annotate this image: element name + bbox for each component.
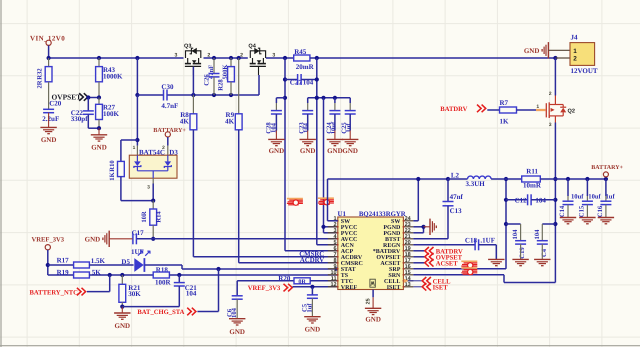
svg-text:13: 13 [405, 282, 411, 288]
svg-text:Q2: Q2 [568, 108, 575, 114]
wire TS net / R19 row [48, 268, 74, 276]
svg-text:GND: GND [91, 144, 107, 152]
svg-text:104: 104 [534, 229, 541, 240]
svg-text:47nf: 47nf [450, 193, 464, 201]
svg-text:2.2uF: 2.2uF [42, 115, 59, 123]
resistor R18 [153, 266, 338, 286]
wire SW pin1 riser and top run [328, 177, 451, 221]
svg-text:Q4: Q4 [248, 43, 256, 49]
ground GND under C4 [534, 259, 550, 265]
svg-text:ISET: ISET [387, 285, 401, 291]
svg-text:GND: GND [115, 322, 131, 330]
wire STAT net [145, 265, 338, 271]
svg-text:1uf: 1uf [346, 123, 353, 133]
transistor Q3 [174, 43, 210, 75]
U1 pin 1 SW [328, 216, 350, 225]
net label BATDRV to R7 [440, 105, 499, 113]
resistor R9 [225, 58, 242, 263]
capacitor C21 [122, 275, 197, 307]
svg-text:D3: D3 [169, 148, 178, 156]
svg-text:10mR: 10mR [523, 182, 542, 190]
connector J4 [548, 34, 598, 75]
U1 pin 25 and ground [365, 290, 381, 324]
orange arrow at pin14 [404, 279, 408, 283]
svg-text:C12: C12 [515, 196, 528, 204]
wire main bus to J4 [310, 56, 558, 60]
svg-text:R20: R20 [278, 274, 291, 282]
svg-text:R32: R32 [37, 68, 44, 80]
capacitor C24 [326, 111, 341, 135]
resistor R28 [218, 58, 235, 95]
svg-text:R14: R14 [155, 211, 162, 223]
capacitor C18 REGN [413, 237, 496, 260]
svg-text:D5: D5 [121, 258, 130, 266]
svg-text:C14: C14 [559, 205, 566, 217]
svg-text:3: 3 [549, 122, 552, 128]
capacitor C25 [341, 111, 356, 134]
op-amp U1 BQ24133RGYR charger IC body [338, 210, 406, 290]
resistor R43 [96, 58, 123, 98]
svg-text:104: 104 [186, 290, 197, 298]
resistor R11 [522, 168, 556, 190]
U1 pin 9 STAT [328, 264, 356, 273]
resistor R27 [96, 98, 120, 129]
net label BATDRV pin19 [413, 247, 463, 256]
svg-text:10uf: 10uf [571, 193, 584, 200]
ground GND under C18 [488, 259, 504, 265]
wire CMSRC to pin7 [193, 251, 337, 258]
U1 pin 11 TTC [328, 276, 353, 285]
svg-text:0R: 0R [298, 278, 306, 285]
U1 pin 14 CELL [384, 276, 413, 285]
wire battery rail [555, 177, 608, 181]
U1 pin 12 VREF [328, 282, 358, 291]
svg-text:GND: GND [269, 147, 285, 155]
transistor Q4 [240, 43, 275, 75]
svg-text:ACDRV: ACDRV [300, 257, 324, 264]
ground GND under R27 [91, 128, 107, 151]
capacitor C4 [534, 224, 556, 259]
wire AVCC to pin4 [153, 238, 338, 240]
net label ACSET pin17 [413, 259, 458, 268]
power port VIN_12V0 [30, 35, 65, 58]
ground GND under C23 [300, 114, 316, 155]
svg-text:100K: 100K [103, 110, 120, 118]
svg-text:10uf: 10uf [331, 121, 338, 134]
U1 pin 17 ACSET [380, 258, 413, 267]
svg-text:1: 1 [133, 145, 136, 151]
svg-text:2: 2 [549, 91, 552, 97]
net label BAT_CHG_STA [137, 269, 218, 316]
svg-text:1K: 1K [500, 117, 510, 125]
svg-text:BQ24133RGYR: BQ24133RGYR [359, 211, 406, 218]
svg-text:2: 2 [240, 52, 243, 58]
U1 pin 2 PVCC [328, 222, 358, 231]
svg-text:GND: GND [305, 325, 321, 333]
U1 pin 7 ACDRV [328, 252, 363, 261]
ground GND left of C17 [85, 231, 133, 247]
diode D3 BAT54C [129, 148, 178, 178]
svg-text:500K: 500K [222, 64, 229, 80]
ground PGND bars [424, 219, 437, 235]
svg-text:4.7nF: 4.7nF [161, 102, 178, 110]
svg-text:GND: GND [300, 147, 316, 155]
U1 pin 10 TS [328, 270, 349, 279]
ground GND under C25 [342, 114, 358, 155]
svg-text:L2: L2 [451, 171, 460, 179]
no-ERC marker on ACN riser [318, 198, 334, 205]
svg-text:VREF_3V3: VREF_3V3 [248, 285, 281, 292]
wire Q4 to R45 [266, 56, 294, 60]
net label OVPSET left [52, 92, 88, 101]
svg-text:4K: 4K [180, 118, 190, 126]
wire ACN riser [315, 58, 338, 245]
svg-text:104: 104 [303, 122, 310, 133]
U1 pin 23 PGND [383, 222, 413, 231]
transistor Q2 [546, 91, 575, 128]
svg-text:1: 1 [573, 48, 577, 55]
U1 pin 5 ACN [328, 240, 355, 249]
svg-text:BATDRV: BATDRV [440, 106, 467, 113]
power port VREF_3V3 left [32, 237, 65, 275]
capacitor C19 [506, 224, 526, 259]
svg-text:BAT_CHG_STA: BAT_CHG_STA [137, 309, 184, 316]
svg-text:ACSET: ACSET [436, 261, 459, 268]
wire ACDRV to pin8 [239, 257, 338, 264]
wire Q2 source to battery rail [553, 123, 557, 182]
svg-text:GND: GND [524, 47, 540, 55]
power port BATTARY+ mid [153, 127, 186, 155]
wire SW pin24 riser [413, 179, 418, 221]
capacitor C30 [137, 83, 193, 110]
no-ERC marker on SRP wire [461, 261, 477, 268]
ground GND under C16 [598, 218, 614, 224]
svg-text:R17: R17 [57, 257, 70, 265]
ground GND under C6 [229, 319, 245, 336]
capacitor C16 [597, 179, 615, 218]
U1 pin 18 OVPSET [376, 252, 413, 261]
svg-text:12VOUT: 12VOUT [571, 67, 598, 75]
ground GND under C19 [512, 259, 528, 265]
svg-text:VREF_3V3: VREF_3V3 [32, 237, 65, 244]
svg-text:OVPSET: OVPSET [52, 92, 82, 101]
wire VIN riser to gate bus [135, 58, 139, 97]
svg-text:1K: 1K [109, 171, 116, 180]
wire Q3-Q4 middle node [204, 56, 248, 60]
wire PVCC-ACN cap stub [308, 96, 351, 111]
svg-text:VREF: VREF [341, 285, 358, 291]
ground GND at J4 pin1 [524, 42, 549, 58]
U1 pin 21 BTST [385, 234, 413, 243]
svg-text:C13: C13 [450, 207, 463, 215]
svg-text:R11: R11 [526, 168, 538, 176]
svg-text:1.5K: 1.5K [91, 257, 106, 265]
svg-text:2: 2 [573, 56, 577, 63]
wire OVPSET node [86, 95, 101, 99]
resistor R19 [74, 268, 154, 278]
capacitor C17 [131, 229, 153, 256]
resistor R14 [141, 201, 162, 241]
ground GND under C5 [304, 317, 320, 334]
U1 pin 20 REGN [383, 240, 413, 249]
U1 pin 22 PGND [383, 228, 413, 237]
svg-text:C15: C15 [579, 205, 586, 217]
capacitor C20 [42, 100, 61, 124]
svg-text:J4: J4 [571, 34, 579, 42]
capacitor C28 [266, 111, 282, 134]
svg-text:ISET: ISET [433, 285, 449, 292]
net label VREF_3V3 at pin12 [248, 284, 338, 292]
svg-text:30K: 30K [128, 290, 141, 298]
svg-text:GND: GND [342, 147, 358, 155]
wire VIN bus top [47, 56, 184, 60]
capacitor C13 BTST [413, 179, 463, 239]
resistor R32 [37, 58, 53, 109]
ground GND under R21 [114, 307, 130, 330]
net label ISET pin13 [413, 283, 448, 292]
wire ACP riser [283, 58, 338, 251]
U1 pin 8 CMSRC [328, 258, 363, 267]
wire PGND tie pins 22 23 [413, 225, 425, 233]
svg-text:1: 1 [536, 104, 539, 110]
resistor R10 [109, 140, 153, 201]
capacitor C14 [559, 179, 584, 218]
capacitor C6 [226, 296, 242, 319]
svg-text:3: 3 [174, 52, 177, 58]
U1 pin 3 PVCC [328, 228, 358, 237]
svg-text:BATTARY+: BATTARY+ [591, 165, 623, 171]
U1 pin 16 SRP [389, 264, 413, 273]
svg-text:1000K: 1000K [103, 73, 123, 81]
wire C22-R27 bottom [88, 126, 101, 130]
svg-text:GND: GND [85, 236, 101, 244]
svg-text:GND: GND [229, 328, 245, 336]
svg-text:R10: R10 [109, 160, 116, 172]
wire gate bus [191, 67, 259, 98]
net label OVPSET pin18 [413, 253, 462, 262]
wire TTC net [237, 281, 294, 296]
svg-text:104: 104 [512, 229, 519, 240]
svg-text:GND: GND [41, 136, 57, 144]
resistor R8 [180, 95, 197, 257]
capacitor C23 [299, 111, 314, 134]
svg-text:3.3UH: 3.3UH [466, 180, 486, 188]
svg-text:GND: GND [327, 147, 343, 155]
wire C28 stub [276, 98, 285, 111]
svg-text:330pf: 330pf [71, 115, 88, 123]
capacitor C5 [302, 287, 318, 317]
svg-text:U1: U1 [338, 210, 347, 218]
svg-text:2R: 2R [37, 80, 44, 88]
U1 pin 13 ISET [387, 282, 414, 291]
ground GND under C28 [268, 114, 284, 155]
wire D3 pin3 node [147, 178, 155, 203]
resistor R17 [48, 257, 134, 268]
power port BATTARY+ right [591, 165, 623, 177]
U1 thermal pad glyph [370, 279, 375, 287]
wire pin1 riser of D3 [133, 95, 140, 155]
ground GND under C24 [327, 114, 343, 155]
wire PVCC riser [321, 98, 337, 233]
capacitor C27 [285, 74, 317, 87]
no-ERC marker on ACP riser [287, 199, 303, 206]
resistor R20 [278, 274, 338, 285]
U1 pin 24 SW [391, 216, 413, 225]
svg-text:BAT54C: BAT54C [139, 148, 165, 156]
capacitor C26 [203, 58, 219, 95]
no-ERC marker on SRN wire [461, 268, 477, 275]
U1 pin 6 ACP [328, 246, 354, 255]
svg-text:R7: R7 [500, 99, 509, 107]
capacitor C15 [579, 179, 602, 218]
wire orange gate segment [536, 104, 546, 110]
svg-text:BATTERY_NTC: BATTERY_NTC [30, 289, 79, 296]
capacitor C12 [506, 194, 555, 205]
wire SRN net [413, 179, 557, 283]
svg-text:1uf: 1uf [606, 193, 616, 200]
resistor R45 [294, 48, 315, 71]
svg-text:20mR: 20mR [296, 63, 315, 71]
svg-text:25: 25 [366, 298, 372, 304]
resistor R21 [119, 275, 141, 309]
capacitor C22 [71, 98, 94, 129]
wire SRP net [413, 177, 508, 269]
U1 pin 15 SRN [388, 270, 413, 279]
svg-text:GND: GND [365, 315, 381, 323]
net label BATTERY_NTC [30, 275, 110, 296]
inductor L2 [448, 171, 522, 187]
ground GND under C20 [40, 113, 56, 144]
U1 pin 4 AVCC [328, 234, 358, 243]
wire J4 to Q2 drain [554, 58, 556, 96]
diode D5 LED [121, 251, 150, 272]
svg-text:R19: R19 [57, 268, 70, 276]
svg-text:100R: 100R [155, 279, 172, 287]
svg-text:Q3: Q3 [184, 43, 191, 49]
resistor R7 [500, 99, 537, 125]
svg-text:4K: 4K [225, 118, 235, 126]
U1 pin 19 *BATDRV [373, 246, 414, 255]
ground GND under C14 [560, 218, 576, 224]
svg-text:3: 3 [147, 185, 150, 191]
net label CELL pin14 [408, 277, 451, 286]
svg-text:C16: C16 [597, 205, 604, 217]
svg-text:12: 12 [330, 282, 336, 288]
svg-text:.1UF: .1UF [480, 237, 495, 245]
ground GND under C15 [579, 218, 595, 224]
svg-text:10uf: 10uf [588, 193, 601, 200]
svg-text:10R: 10R [141, 211, 148, 223]
